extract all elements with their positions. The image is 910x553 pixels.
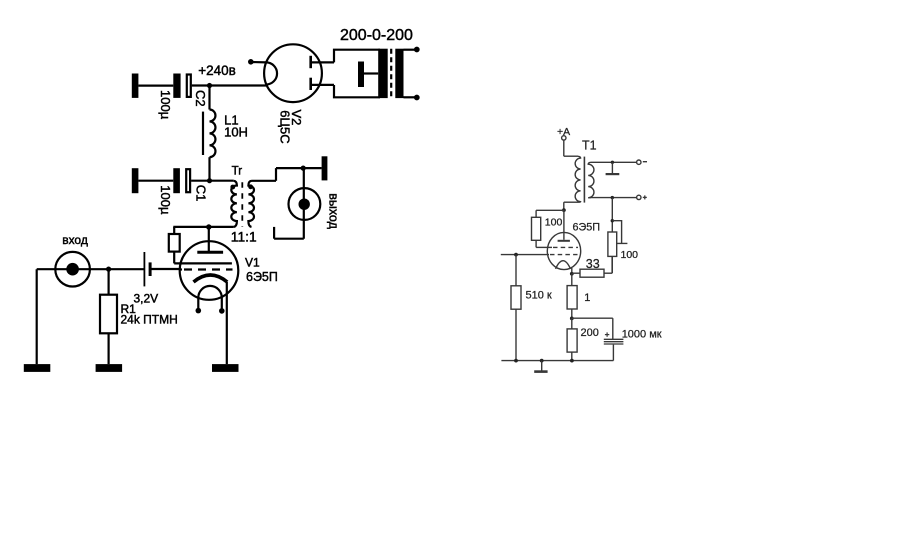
svg-text:+A: +A — [557, 126, 570, 138]
svg-text:200-0-200: 200-0-200 — [340, 27, 413, 44]
svg-text:Tr: Tr — [232, 166, 243, 178]
svg-text:C2: C2 — [193, 90, 208, 107]
svg-text:100: 100 — [621, 249, 639, 261]
svg-text:6Э5П: 6Э5П — [573, 222, 601, 234]
svg-text:11:1: 11:1 — [231, 230, 257, 245]
svg-text:3,2V: 3,2V — [134, 292, 159, 306]
svg-text:V1: V1 — [245, 256, 260, 270]
svg-text:33: 33 — [586, 257, 600, 271]
svg-text:100: 100 — [545, 217, 563, 229]
svg-text:6Ц5С: 6Ц5С — [278, 110, 293, 143]
svg-text:выход: выход — [326, 193, 340, 229]
svg-text:100µ: 100µ — [158, 90, 173, 120]
svg-text:T1: T1 — [582, 138, 597, 152]
svg-text:100µ: 100µ — [158, 185, 173, 215]
svg-text:24k ПТМН: 24k ПТМН — [121, 313, 178, 327]
svg-text:1: 1 — [584, 292, 590, 304]
svg-text:C1: C1 — [194, 185, 209, 202]
svg-text:вход: вход — [62, 233, 88, 247]
svg-text:1000 мк: 1000 мк — [622, 329, 662, 341]
svg-text:+240в: +240в — [198, 63, 236, 78]
svg-text:510 к: 510 к — [526, 289, 552, 301]
svg-text:200: 200 — [581, 327, 599, 339]
svg-text:6Э5П: 6Э5П — [246, 270, 278, 284]
svg-text:10H: 10H — [224, 125, 248, 140]
